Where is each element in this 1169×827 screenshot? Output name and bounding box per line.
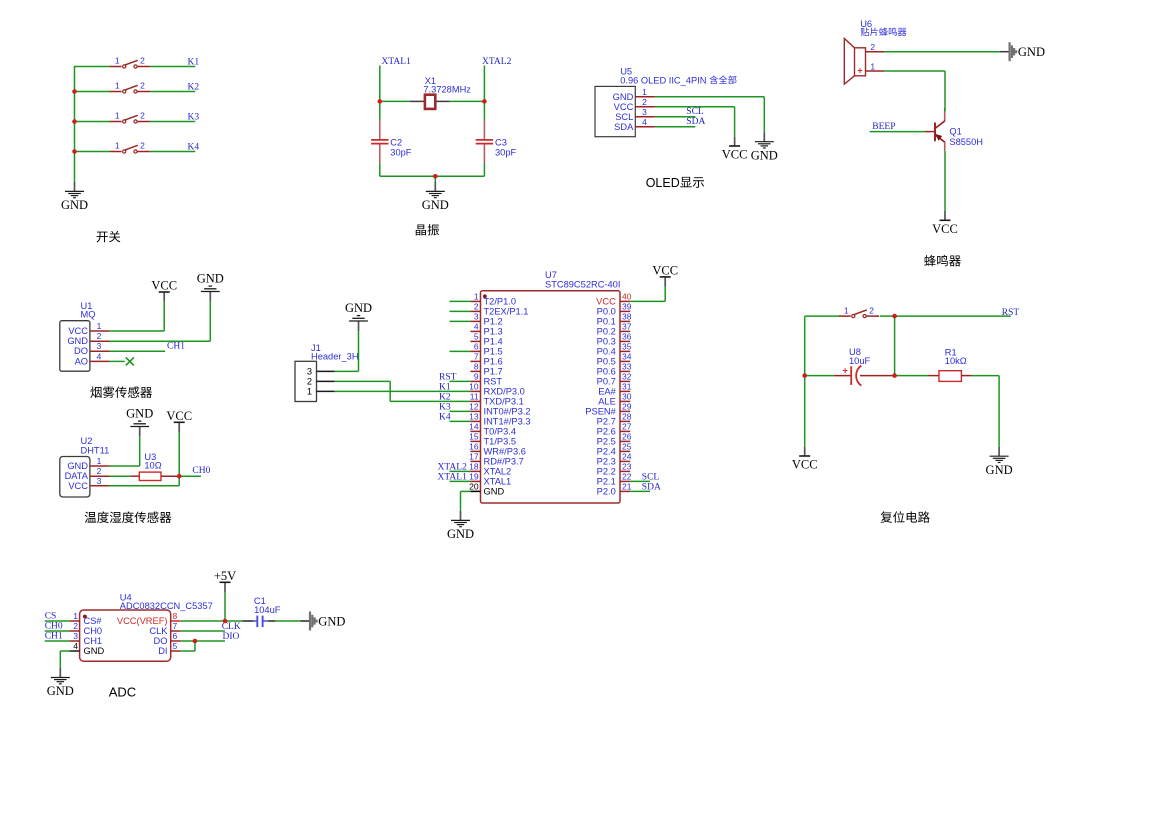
svg-text:VCC: VCC bbox=[596, 297, 616, 307]
svg-text:CH0: CH0 bbox=[45, 622, 63, 632]
svg-text:35: 35 bbox=[622, 342, 632, 352]
svg-text:P2.3: P2.3 bbox=[597, 457, 616, 467]
svg-text:18: 18 bbox=[469, 462, 479, 472]
svg-text:3: 3 bbox=[97, 476, 102, 486]
svg-text:GND: GND bbox=[67, 461, 88, 471]
svg-text:8: 8 bbox=[173, 611, 178, 621]
svg-text:1: 1 bbox=[870, 61, 875, 71]
svg-text:DI: DI bbox=[158, 646, 167, 656]
svg-text:2: 2 bbox=[140, 81, 145, 91]
svg-text:16: 16 bbox=[469, 442, 479, 452]
svg-text:P1.6: P1.6 bbox=[484, 357, 503, 367]
svg-text:+: + bbox=[857, 66, 862, 76]
svg-text:AO: AO bbox=[75, 356, 88, 366]
svg-text:5: 5 bbox=[474, 332, 479, 342]
svg-text:33: 33 bbox=[622, 362, 632, 372]
svg-text:30: 30 bbox=[622, 392, 632, 402]
svg-text:P1.3: P1.3 bbox=[484, 327, 503, 337]
svg-text:GND: GND bbox=[61, 198, 88, 212]
svg-text:SCL: SCL bbox=[642, 472, 660, 482]
svg-text:RST: RST bbox=[439, 373, 457, 383]
svg-text:1: 1 bbox=[115, 141, 120, 151]
svg-text:INT1#/P3.3: INT1#/P3.3 bbox=[484, 417, 531, 427]
svg-text:P1.2: P1.2 bbox=[484, 317, 503, 327]
svg-text:2: 2 bbox=[870, 42, 875, 52]
svg-text:T0/P3.4: T0/P3.4 bbox=[484, 427, 517, 437]
svg-text:10kΩ: 10kΩ bbox=[945, 356, 967, 366]
svg-text:VCC: VCC bbox=[932, 222, 958, 236]
svg-text:ALE: ALE bbox=[598, 397, 616, 407]
svg-text:2: 2 bbox=[869, 305, 874, 315]
svg-text:1: 1 bbox=[844, 305, 849, 315]
svg-text:11: 11 bbox=[470, 392, 479, 402]
svg-text:2: 2 bbox=[642, 97, 647, 107]
svg-text:SDA: SDA bbox=[686, 117, 705, 127]
svg-text:SCL: SCL bbox=[615, 112, 633, 122]
svg-text:BEEP: BEEP bbox=[872, 122, 895, 132]
svg-text:9: 9 bbox=[474, 372, 479, 382]
svg-text:K4: K4 bbox=[188, 143, 200, 153]
svg-text:P0.2: P0.2 bbox=[597, 327, 616, 337]
svg-text:VCC: VCC bbox=[614, 102, 634, 112]
svg-text:1: 1 bbox=[73, 611, 78, 621]
svg-text:104uF: 104uF bbox=[254, 605, 281, 615]
svg-text:8: 8 bbox=[474, 362, 479, 372]
svg-text:VCC: VCC bbox=[722, 148, 748, 162]
svg-text:2: 2 bbox=[73, 621, 78, 631]
svg-text:MQ: MQ bbox=[81, 310, 96, 320]
svg-text:2: 2 bbox=[140, 56, 145, 66]
svg-text:STC89C52RC-40I: STC89C52RC-40I bbox=[545, 280, 620, 290]
svg-text:SDA: SDA bbox=[614, 122, 634, 132]
svg-text:CS: CS bbox=[45, 612, 57, 622]
svg-text:1: 1 bbox=[642, 87, 647, 97]
svg-text:2: 2 bbox=[307, 377, 312, 387]
svg-text:12: 12 bbox=[469, 402, 479, 412]
svg-text:K3: K3 bbox=[439, 403, 451, 413]
svg-text:GND: GND bbox=[447, 527, 474, 541]
svg-text:K1: K1 bbox=[188, 58, 200, 68]
svg-text:C3: C3 bbox=[495, 138, 507, 148]
svg-text:P2.7: P2.7 bbox=[597, 417, 616, 427]
svg-text:DHT11: DHT11 bbox=[81, 445, 110, 455]
svg-text:SCL: SCL bbox=[686, 107, 704, 117]
svg-text:37: 37 bbox=[622, 322, 632, 332]
svg-text:19: 19 bbox=[469, 472, 479, 482]
svg-text:26: 26 bbox=[622, 432, 632, 442]
svg-text:GND: GND bbox=[986, 463, 1013, 477]
svg-text:CH0: CH0 bbox=[192, 466, 210, 476]
svg-text:1: 1 bbox=[97, 456, 102, 466]
svg-text:P0.0: P0.0 bbox=[597, 307, 616, 317]
svg-text:VCC: VCC bbox=[792, 458, 818, 472]
svg-text:CLK: CLK bbox=[222, 622, 241, 632]
svg-text:32: 32 bbox=[622, 372, 632, 382]
svg-text:GND: GND bbox=[1018, 45, 1045, 59]
svg-text:DO: DO bbox=[74, 346, 88, 356]
svg-text:38: 38 bbox=[622, 312, 632, 322]
svg-text:DO: DO bbox=[154, 636, 168, 646]
svg-text:P1.5: P1.5 bbox=[484, 347, 503, 357]
svg-text:OLED: OLED bbox=[646, 176, 680, 190]
svg-text:28: 28 bbox=[622, 412, 632, 422]
svg-text:P1.7: P1.7 bbox=[484, 367, 503, 377]
svg-text:6: 6 bbox=[474, 342, 479, 352]
svg-text:4: 4 bbox=[73, 641, 78, 651]
svg-text:2: 2 bbox=[140, 111, 145, 121]
svg-text:P2.4: P2.4 bbox=[597, 447, 616, 457]
svg-text:GND: GND bbox=[318, 614, 345, 628]
svg-text:VCC: VCC bbox=[68, 481, 88, 491]
svg-text:GND: GND bbox=[345, 301, 372, 315]
svg-text:TXD/P3.1: TXD/P3.1 bbox=[484, 397, 524, 407]
svg-text:10: 10 bbox=[469, 382, 479, 392]
svg-text:Q1: Q1 bbox=[949, 126, 961, 136]
svg-text:XTAL1: XTAL1 bbox=[438, 473, 468, 483]
svg-text:U6: U6 bbox=[860, 19, 872, 29]
svg-text:3: 3 bbox=[73, 631, 78, 641]
svg-text:CH1: CH1 bbox=[84, 636, 103, 646]
svg-text:25: 25 bbox=[622, 442, 632, 452]
svg-text:INT0#/P3.2: INT0#/P3.2 bbox=[484, 407, 531, 417]
svg-text:SDA: SDA bbox=[642, 482, 661, 492]
svg-text:3: 3 bbox=[97, 341, 102, 351]
svg-text:7: 7 bbox=[173, 621, 178, 631]
svg-text:P1.4: P1.4 bbox=[484, 337, 503, 347]
svg-text:GND: GND bbox=[422, 198, 449, 212]
svg-text:ADC: ADC bbox=[109, 685, 136, 700]
svg-text:6: 6 bbox=[173, 631, 178, 641]
svg-text:+: + bbox=[842, 365, 848, 376]
svg-text:RD#/P3.7: RD#/P3.7 bbox=[484, 457, 524, 467]
svg-text:P2.1: P2.1 bbox=[597, 477, 616, 487]
svg-text:17: 17 bbox=[469, 452, 479, 462]
svg-text:2: 2 bbox=[474, 302, 479, 312]
svg-text:GND: GND bbox=[47, 684, 74, 698]
svg-text:P0.5: P0.5 bbox=[597, 357, 616, 367]
svg-text:20: 20 bbox=[469, 482, 479, 492]
svg-text:GND: GND bbox=[613, 92, 634, 102]
svg-text:1: 1 bbox=[115, 56, 120, 66]
svg-text:4: 4 bbox=[474, 322, 479, 332]
svg-text:T1/P3.5: T1/P3.5 bbox=[484, 437, 517, 447]
svg-text:P2.2: P2.2 bbox=[597, 467, 616, 477]
svg-text:PSEN#: PSEN# bbox=[585, 407, 616, 417]
svg-text:RST: RST bbox=[484, 377, 503, 387]
svg-text:CH1: CH1 bbox=[167, 342, 185, 352]
svg-text:0.96 OLED IIC_4PIN: 0.96 OLED IIC_4PIN bbox=[620, 75, 709, 85]
svg-text:DIO: DIO bbox=[223, 632, 240, 642]
svg-text:14: 14 bbox=[469, 422, 479, 432]
svg-text:P0.6: P0.6 bbox=[597, 367, 616, 377]
svg-text:XTAL2: XTAL2 bbox=[482, 57, 512, 67]
svg-text:5: 5 bbox=[173, 641, 178, 651]
svg-text:WR#/P3.6: WR#/P3.6 bbox=[484, 447, 526, 457]
svg-text:22: 22 bbox=[622, 472, 632, 482]
svg-text:P0.4: P0.4 bbox=[597, 347, 616, 357]
svg-text:GND: GND bbox=[67, 336, 88, 346]
svg-text:+5V: +5V bbox=[214, 569, 236, 583]
svg-text:GND: GND bbox=[751, 148, 778, 162]
svg-text:VCC(VREF): VCC(VREF) bbox=[117, 616, 168, 626]
svg-text:10Ω: 10Ω bbox=[144, 461, 161, 471]
svg-text:27: 27 bbox=[622, 422, 632, 432]
svg-text:7.3728MHz: 7.3728MHz bbox=[423, 85, 471, 95]
svg-text:VCC: VCC bbox=[652, 264, 678, 278]
svg-text:29: 29 bbox=[622, 402, 632, 412]
svg-text:40: 40 bbox=[622, 292, 632, 302]
svg-text:RST: RST bbox=[1002, 308, 1020, 318]
svg-text:3: 3 bbox=[474, 312, 479, 322]
svg-text:T2/P1.0: T2/P1.0 bbox=[484, 297, 517, 307]
svg-text:P0.1: P0.1 bbox=[597, 317, 616, 327]
svg-text:GND: GND bbox=[126, 407, 153, 421]
svg-text:XTAL1: XTAL1 bbox=[382, 57, 412, 67]
svg-text:VCC: VCC bbox=[68, 326, 88, 336]
svg-text:CH1: CH1 bbox=[45, 632, 63, 642]
svg-text:GND: GND bbox=[84, 646, 105, 656]
svg-text:2: 2 bbox=[140, 141, 145, 151]
svg-text:3: 3 bbox=[642, 107, 647, 117]
svg-text:10uF: 10uF bbox=[849, 356, 871, 366]
svg-text:23: 23 bbox=[622, 462, 632, 472]
svg-text:36: 36 bbox=[622, 332, 632, 342]
svg-text:15: 15 bbox=[469, 432, 479, 442]
svg-text:K2: K2 bbox=[188, 83, 200, 93]
svg-text:XTAL2: XTAL2 bbox=[484, 467, 512, 477]
svg-text:39: 39 bbox=[622, 302, 632, 312]
svg-text:7: 7 bbox=[474, 352, 479, 362]
svg-text:21: 21 bbox=[622, 482, 632, 492]
svg-text:CH0: CH0 bbox=[84, 626, 103, 636]
svg-text:P2.5: P2.5 bbox=[597, 437, 616, 447]
svg-text:CLK: CLK bbox=[149, 626, 168, 636]
svg-text:1: 1 bbox=[115, 81, 120, 91]
svg-text:13: 13 bbox=[469, 412, 479, 422]
svg-text:P2.0: P2.0 bbox=[597, 487, 616, 497]
svg-text:34: 34 bbox=[622, 352, 632, 362]
svg-text:4: 4 bbox=[97, 351, 102, 361]
svg-text:P2.6: P2.6 bbox=[597, 427, 616, 437]
svg-text:1: 1 bbox=[307, 387, 312, 397]
svg-text:K4: K4 bbox=[439, 413, 451, 423]
svg-text:T2EX/P1.1: T2EX/P1.1 bbox=[484, 307, 529, 317]
svg-text:P0.7: P0.7 bbox=[597, 377, 616, 387]
svg-text:Header_3H: Header_3H bbox=[311, 352, 359, 362]
svg-text:U2: U2 bbox=[81, 436, 93, 446]
svg-text:GND: GND bbox=[484, 487, 505, 497]
svg-text:4: 4 bbox=[642, 117, 647, 127]
svg-text:XTAL2: XTAL2 bbox=[438, 463, 468, 473]
svg-text:RXD/P3.0: RXD/P3.0 bbox=[484, 387, 525, 397]
svg-text:DATA: DATA bbox=[65, 471, 89, 481]
svg-text:C2: C2 bbox=[390, 138, 402, 148]
svg-text:3: 3 bbox=[307, 367, 312, 377]
svg-text:30pF: 30pF bbox=[495, 147, 517, 157]
svg-text:2: 2 bbox=[97, 331, 102, 341]
svg-text:1: 1 bbox=[115, 111, 120, 121]
svg-text:P0.3: P0.3 bbox=[597, 337, 616, 347]
svg-text:30pF: 30pF bbox=[390, 147, 412, 157]
svg-text:U7: U7 bbox=[545, 270, 557, 280]
svg-text:K3: K3 bbox=[188, 113, 200, 123]
svg-text:2: 2 bbox=[97, 466, 102, 476]
svg-text:1: 1 bbox=[474, 292, 479, 302]
svg-text:GND: GND bbox=[197, 272, 224, 286]
svg-text:VCC: VCC bbox=[151, 279, 177, 293]
svg-text:24: 24 bbox=[622, 452, 632, 462]
svg-text:S8550H: S8550H bbox=[949, 137, 983, 147]
svg-text:VCC: VCC bbox=[166, 409, 192, 423]
svg-text:EA#: EA# bbox=[598, 387, 616, 397]
svg-text:31: 31 bbox=[622, 382, 632, 392]
svg-text:XTAL1: XTAL1 bbox=[484, 477, 512, 487]
svg-text:1: 1 bbox=[97, 321, 102, 331]
